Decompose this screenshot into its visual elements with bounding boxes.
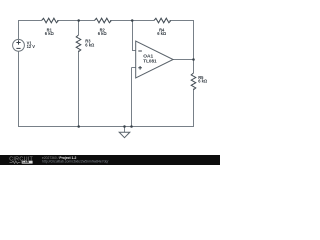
svg-text:TL081: TL081	[143, 59, 157, 64]
svg-text:12 V: 12 V	[27, 44, 36, 49]
svg-text:6 kΩ: 6 kΩ	[98, 31, 108, 36]
svg-text:6 kΩ: 6 kΩ	[198, 79, 208, 84]
svg-text:http://circuitlab.com/c6xkz2w5: http://circuitlab.com/c6xkz2w5nmhw84e7dq…	[42, 160, 108, 164]
svg-text:6 kΩ: 6 kΩ	[45, 31, 55, 36]
svg-text:6 kΩ: 6 kΩ	[157, 31, 167, 36]
svg-text:6 kΩ: 6 kΩ	[85, 43, 95, 48]
svg-text:LAB: LAB	[23, 160, 30, 164]
